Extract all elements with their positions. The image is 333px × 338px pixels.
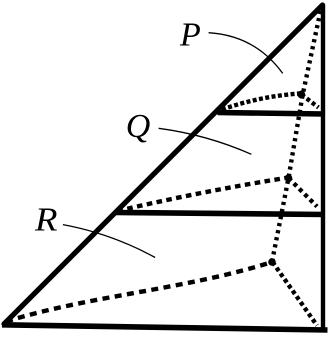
hidden cut edge 1 left (to hypotenuse): [222, 94, 300, 110]
leader line for Q: [159, 128, 252, 154]
section line 1 (top cut): [218, 113, 326, 115]
right vertical edge: [321, 5, 325, 332]
junction point 2: [285, 174, 293, 182]
hidden base edge right (to bottom-right corner): [273, 262, 318, 326]
svg-text:R: R: [34, 202, 58, 239]
leader line for P: [209, 33, 283, 74]
bottom edge: [2, 325, 328, 330]
section line 2 (middle cut): [116, 213, 325, 215]
svg-text:P: P: [179, 16, 201, 53]
junction point 1: [297, 91, 305, 99]
hidden back edge (dashed spine from apex through junctions): [272, 11, 321, 262]
hidden cut edge 1 right (to right edge): [302, 95, 319, 108]
hidden cut edge 2 left (to hypotenuse): [118, 178, 289, 212]
junction point 3: [268, 258, 276, 266]
svg-text:Q: Q: [126, 108, 151, 145]
hidden cut edge 2 right (to right edge): [289, 178, 318, 207]
hidden base edge left (to bottom-left corner): [6, 262, 272, 322]
leader line for R: [63, 225, 155, 258]
